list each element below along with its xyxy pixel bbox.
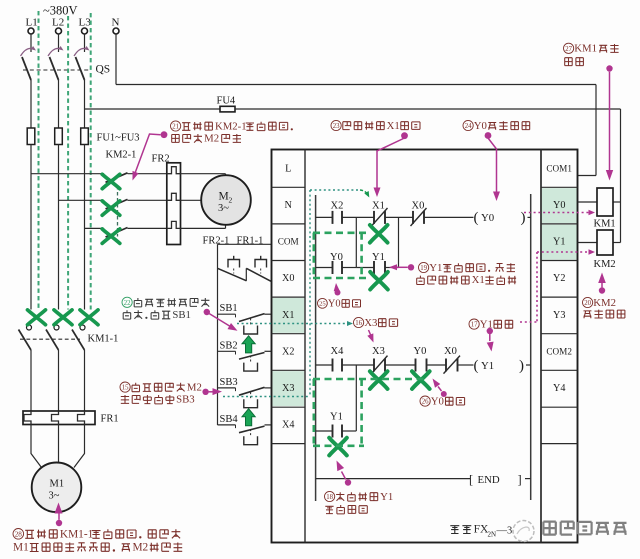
pushbutton SB1	[218, 303, 272, 334]
PLC output column divider	[540, 150, 542, 543]
PLC terminal green cell X1	[272, 298, 304, 333]
wires FR2 to motor M2	[181, 173, 226, 175]
svg-text:X0: X0	[412, 200, 425, 211]
rung 1 wire	[316, 216, 333, 218]
parallel Y1 self-hold wire	[316, 430, 333, 432]
svg-text:SB4: SB4	[220, 414, 239, 425]
svg-text:QS: QS	[96, 64, 111, 76]
svg-text:X1: X1	[472, 274, 485, 286]
svg-text:Y0: Y0	[431, 395, 444, 407]
annotation 15: press M2 stop button SB3	[120, 382, 130, 392]
svg-text:Y0: Y0	[474, 120, 487, 132]
svg-text:Y0: Y0	[414, 346, 427, 357]
X mark on X3 contact	[370, 371, 388, 389]
svg-text:M2: M2	[187, 381, 202, 393]
PLC outer box	[272, 150, 578, 543]
node B vertical	[398, 217, 400, 267]
svg-text:3~: 3~	[218, 203, 229, 214]
annotation 26: Y0 opens	[420, 396, 430, 406]
END rung	[316, 478, 470, 480]
node A vertical	[355, 217, 357, 267]
coil KM1	[578, 201, 598, 203]
X mark on KM1-1 pole 2	[54, 310, 72, 325]
svg-text:Y0: Y0	[330, 252, 343, 263]
svg-text:KM2: KM2	[594, 259, 616, 270]
svg-text:X2: X2	[282, 346, 294, 357]
watermark logo circle	[513, 521, 534, 542]
pushbutton SB2	[218, 340, 272, 371]
svg-text:SB3: SB3	[176, 394, 195, 406]
disconnect switch QS	[21, 46, 90, 80]
svg-text:15: 15	[122, 385, 129, 392]
svg-text:): )	[519, 358, 524, 374]
svg-text:Y1: Y1	[481, 360, 494, 372]
X mark on Y0 contact rung2	[412, 371, 430, 389]
svg-text:X4: X4	[282, 420, 294, 431]
annotation 19: Y1 resets, unlocks X1	[419, 262, 429, 272]
svg-text:[: [	[469, 472, 473, 486]
signal dotted to label 17	[520, 321, 537, 323]
contact X4 (rung2)	[332, 359, 334, 372]
svg-text:3~: 3~	[49, 491, 60, 502]
PLC terminal green cell X3	[272, 371, 304, 406]
svg-text:KM2-1: KM2-1	[106, 150, 137, 161]
svg-text:X3: X3	[364, 317, 377, 329]
rung 2 wire	[316, 364, 333, 366]
annotation 23: NC contact X1 opens	[331, 120, 341, 130]
signal-flow dashed line phase B	[67, 16, 69, 310]
svg-text:Y4: Y4	[553, 383, 565, 394]
signal-flow dashed line phase A	[38, 11, 40, 310]
svg-text:19: 19	[420, 265, 427, 272]
svg-text:26: 26	[422, 399, 429, 406]
signal dotted vertical Y1	[536, 252, 538, 322]
annotation 28: KM1-1 resets, M1 power cut	[56, 520, 62, 526]
annotation 20: coil KM2 loses power	[583, 297, 593, 307]
thermal contact FR1-1	[246, 256, 271, 281]
contact Y1 (rung1 branch)	[373, 261, 375, 274]
svg-text:KM2-1: KM2-1	[215, 120, 247, 132]
svg-text:X0: X0	[282, 273, 294, 284]
wire L2 QS to fuse	[58, 80, 60, 128]
svg-text:M1: M1	[50, 479, 65, 490]
signal dotted Y0 to KM1	[524, 212, 590, 214]
signal dotted to X1 label	[310, 189, 360, 191]
signal dotted vertical	[309, 190, 311, 397]
svg-text:16: 16	[355, 320, 362, 327]
svg-text:M2: M2	[132, 542, 148, 554]
svg-text:M2: M2	[204, 133, 219, 145]
wire L1 QS to fuse	[30, 80, 32, 128]
svg-text:M1: M1	[13, 542, 29, 554]
svg-text:X1: X1	[282, 310, 294, 321]
green press arrow at SB4	[242, 409, 255, 426]
wire L2 drop to QS	[58, 34, 60, 52]
svg-text:KM1-1: KM1-1	[60, 528, 93, 540]
contact X2 (rung1)	[332, 211, 334, 224]
svg-text:L1: L1	[26, 17, 38, 29]
svg-text:~380V: ~380V	[43, 4, 78, 18]
node C vertical	[355, 365, 357, 431]
thermal contact FR2-1	[218, 256, 247, 281]
svg-text:Y0: Y0	[481, 212, 494, 224]
svg-text:2: 2	[229, 196, 233, 205]
svg-text:X3: X3	[372, 346, 385, 357]
svg-text:22: 22	[124, 300, 131, 307]
fuse FU4	[85, 108, 221, 110]
svg-text:COM: COM	[278, 237, 299, 247]
svg-text:23: 23	[333, 123, 340, 130]
annotation 25: Y0 contact opens	[318, 298, 328, 308]
X mark on Y1 self-hold	[329, 438, 347, 456]
X mark on KM2-1 pole 2	[102, 201, 120, 215]
wire L3 QS to fuse	[84, 80, 86, 128]
svg-text:COM2: COM2	[546, 346, 572, 356]
fuse FU2	[55, 128, 63, 145]
contact X3 NC (rung2)	[373, 359, 375, 372]
svg-text:28: 28	[15, 530, 23, 538]
svg-text:Y0: Y0	[328, 298, 341, 309]
motor M2	[201, 175, 251, 225]
watermark text dianzi jishu kong	[543, 522, 626, 535]
parallel rung Y0/Y1 wire	[316, 267, 333, 269]
wire N horizontal	[115, 34, 117, 85]
svg-text:M: M	[219, 191, 229, 203]
svg-text:SB3: SB3	[220, 377, 238, 388]
svg-text:(: (	[474, 210, 479, 226]
wire COM common	[218, 243, 272, 245]
annotation 22: press SB1 per reverse-order stop	[122, 297, 132, 307]
X mark on KM2-1 pole 1	[102, 174, 120, 188]
svg-text:L3: L3	[79, 17, 92, 29]
svg-text:L2: L2	[52, 17, 64, 29]
svg-text:KM1: KM1	[574, 43, 597, 55]
svg-text:X3: X3	[282, 383, 294, 394]
fuse FU1	[27, 128, 35, 145]
svg-text:KM1-1: KM1-1	[88, 334, 119, 345]
svg-text:KM2: KM2	[593, 297, 616, 309]
annotation 27: coil KM1 loses power	[564, 43, 574, 53]
svg-text:N: N	[285, 200, 293, 211]
svg-text:27: 27	[565, 46, 572, 53]
de-energized dashed path rung2	[313, 379, 427, 446]
coil KM2	[578, 242, 598, 244]
annotation 16: X3 opens	[354, 317, 364, 327]
thermal relay FR1	[23, 411, 95, 425]
X mark on KM2-1 pole 3	[102, 229, 120, 243]
X mark on X1 contact	[370, 225, 388, 243]
annotation 24: coil Y0 loses power	[463, 120, 473, 130]
thermal relay FR2	[167, 163, 181, 245]
svg-text:Y3: Y3	[553, 310, 565, 321]
PLC terminal row dividers	[272, 187, 578, 443]
svg-text:Y0: Y0	[553, 200, 565, 211]
svg-text:KM1: KM1	[594, 219, 616, 230]
svg-text:FR2: FR2	[152, 154, 170, 165]
wire FU4 to contactor coils	[235, 108, 621, 110]
pushbutton SB4	[218, 414, 272, 445]
svg-text:SB2: SB2	[220, 340, 238, 351]
signal-flow dashed line phase C	[90, 13, 92, 310]
svg-text:N: N	[112, 17, 120, 29]
svg-text:X1: X1	[372, 200, 385, 211]
svg-text:20: 20	[584, 300, 591, 307]
contactor KM2-1 main contacts	[31, 173, 167, 237]
svg-text:SB1: SB1	[172, 309, 191, 321]
wire L3 drop to QS	[84, 34, 86, 52]
fuse FU3	[81, 128, 89, 145]
svg-text:(: (	[474, 358, 479, 374]
svg-text:FU4: FU4	[217, 96, 236, 107]
motor M1	[32, 463, 82, 513]
svg-text:Y1: Y1	[553, 237, 565, 248]
X mark on KM1-1 pole 1	[28, 310, 46, 325]
svg-text:Y1: Y1	[429, 262, 442, 274]
contact X1 NC (rung1)	[373, 211, 375, 224]
svg-text:X1: X1	[387, 120, 400, 132]
svg-text:24: 24	[465, 123, 472, 130]
svg-text:Y2: Y2	[553, 273, 565, 284]
svg-text:X0: X0	[444, 346, 457, 357]
wire L1 fuse to KM1-1	[30, 145, 32, 310]
svg-text:17: 17	[471, 322, 478, 329]
svg-text:COM1: COM1	[546, 163, 572, 173]
contact Y0 (rung2)	[415, 359, 417, 372]
svg-text:X4: X4	[331, 346, 345, 357]
ladder left rail	[315, 195, 317, 501]
contact X0 NC (rung1)	[412, 211, 414, 224]
svg-text:21: 21	[172, 124, 179, 131]
pushbutton SB3	[218, 377, 272, 408]
annotation 18: self-hold contact Y1 resets	[325, 491, 335, 501]
svg-text:X2: X2	[331, 200, 344, 211]
signal dotted path X1 input	[237, 323, 349, 325]
svg-text:25: 25	[319, 301, 326, 308]
svg-text:FR1: FR1	[101, 414, 119, 425]
X mark on Y1 contact	[370, 272, 388, 290]
svg-text:L: L	[285, 163, 291, 174]
contactor KM1-1 main contacts	[19, 325, 86, 411]
wire L3 fuse to KM1-1	[84, 145, 86, 310]
PLC terminal green cell Y0	[542, 188, 577, 223]
wire L1 drop to QS	[30, 34, 32, 52]
contact X0 NC (rung2)	[445, 359, 447, 372]
signal dotted Y1 to KM2	[537, 251, 590, 253]
signal dotted path X3 input	[223, 396, 310, 398]
contact Y1 self-hold	[332, 425, 334, 438]
wires FR1 to motor M1	[31, 425, 42, 468]
green press arrow at SB2	[242, 336, 255, 353]
svg-text:18: 18	[326, 494, 333, 501]
svg-text:Y1: Y1	[330, 412, 343, 423]
svg-text:Y1: Y1	[380, 491, 393, 503]
svg-text:Y1: Y1	[372, 252, 385, 263]
PLC input column divider	[304, 150, 306, 543]
X mark on KM1-1 pole 3	[80, 310, 98, 325]
wire L2 fuse to KM1-1	[58, 145, 60, 310]
contact Y0 (rung1 branch)	[332, 261, 334, 274]
annotation 17: Y1 loses power	[469, 319, 479, 329]
de-energized dashed path rung1	[313, 233, 369, 278]
svg-text:FU1~FU3: FU1~FU3	[97, 133, 140, 144]
annotation 21: KM2-1 main contact resets, motor M2 stops	[171, 121, 181, 131]
svg-text:END: END	[478, 474, 500, 486]
svg-text:]: ]	[518, 472, 522, 486]
svg-text:SB1: SB1	[220, 303, 238, 314]
svg-text:2N: 2N	[488, 531, 497, 539]
svg-text:—3: —3	[496, 525, 513, 536]
ladder right rail	[530, 194, 532, 500]
PLC terminal green cell Y1	[542, 225, 577, 260]
